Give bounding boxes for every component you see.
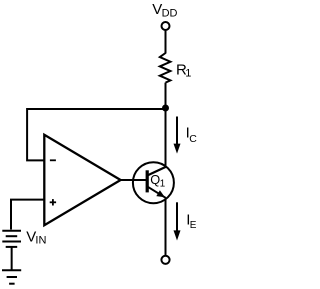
battery VIN [2,231,21,247]
transistor Q1 emitter stroke [148,187,166,198]
label Q1 [150,172,165,190]
op-amp U1 [44,135,120,225]
transistor Q1 collector stroke [148,167,166,176]
transistor Q1 circle [133,162,174,203]
wire VIN to op-amp non-inverting input [11,200,44,230]
wire op-amp output to base [119,179,147,181]
wire R1 to collector node [165,83,167,108]
transistor Q1 base bar [146,170,149,192]
svg-text:1: 1 [160,179,165,190]
svg-text:IN: IN [35,235,46,247]
node collector junction [162,105,169,112]
svg-text:C: C [189,133,197,145]
wire battery to ground [11,247,13,270]
label R1 [176,61,191,79]
svg-text:E: E [190,220,197,231]
label IC [186,125,198,145]
wire VDD terminal to R1 [165,30,167,54]
op-amp minus sign [50,159,56,161]
label IE [186,211,196,231]
ground [2,270,21,283]
terminal emitter output [161,256,169,264]
terminal VDD [162,22,170,30]
resistor R1 [160,53,171,83]
op-amp plus sign [50,199,56,205]
svg-text:DD: DD [162,7,178,19]
svg-text:1: 1 [185,67,191,79]
label VDD [152,1,177,20]
arrow IE [174,202,181,240]
wire feedback from node to op-amp inverting input [27,109,164,160]
wire emitter down [165,198,167,256]
arrow IC [174,117,181,154]
label VIN [26,228,46,246]
transistor Q1 emitter arrowhead [156,190,165,197]
wire node to collector [165,108,167,168]
